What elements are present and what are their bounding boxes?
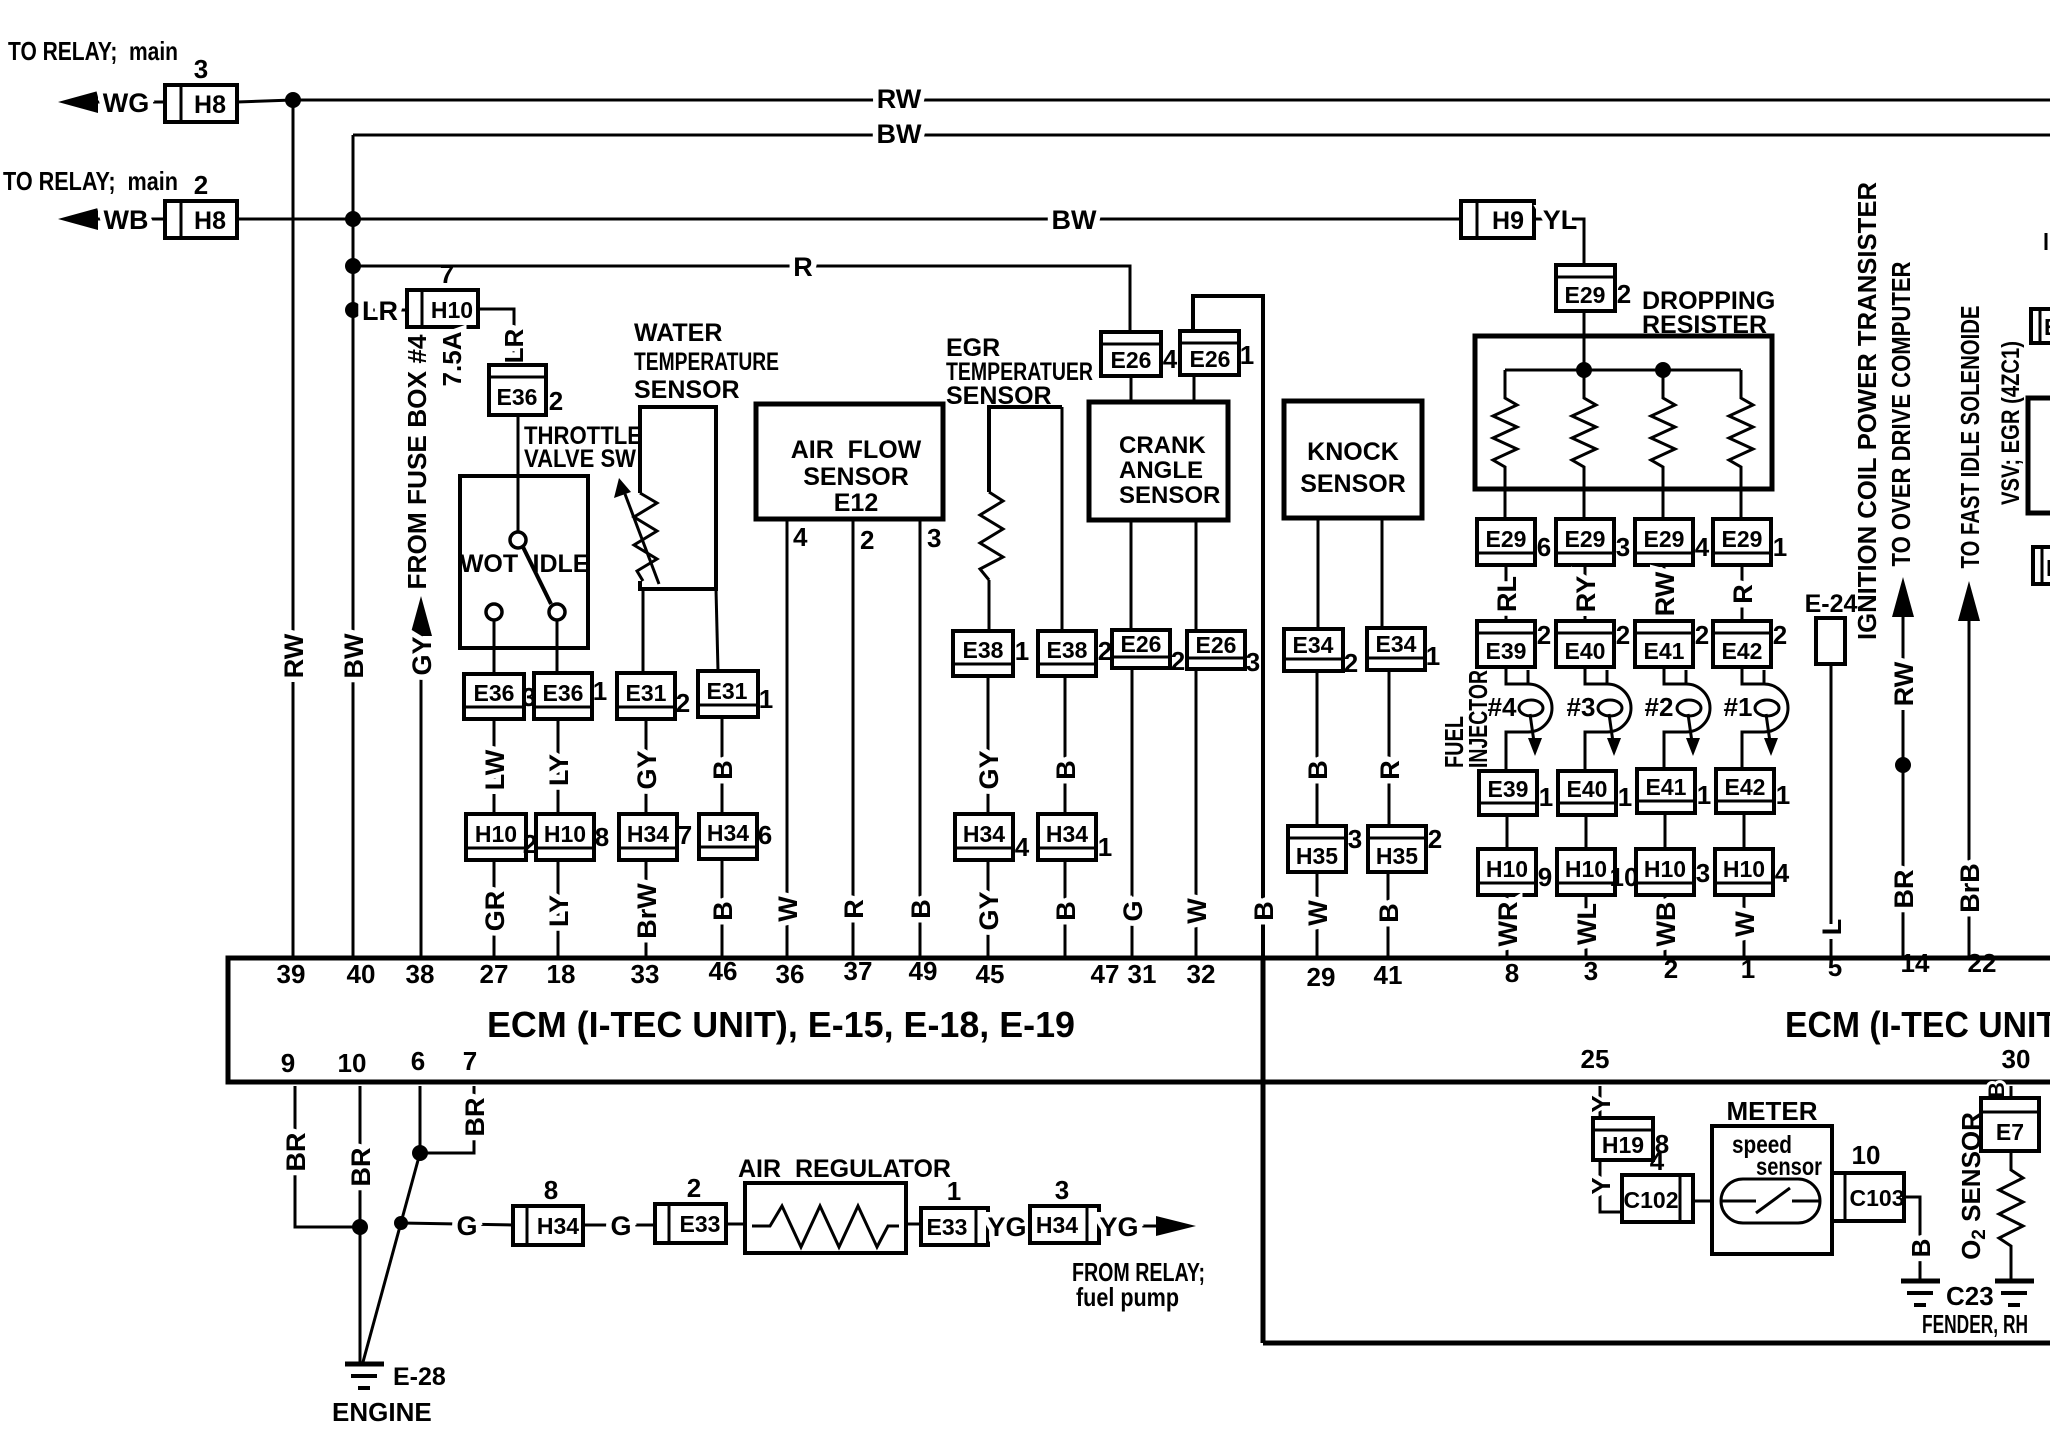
- connector E26 pin 1: [1180, 331, 1254, 375]
- connector E29 pin 3: [1556, 519, 1630, 565]
- svg-text:E12: E12: [834, 489, 878, 517]
- svg-text:WOT: WOT: [460, 550, 518, 578]
- connector H34 pin 6: [699, 814, 772, 859]
- svg-text:R: R: [839, 899, 869, 919]
- svg-text:VALVE SW: VALVE SW: [524, 445, 636, 473]
- svg-text:38: 38: [406, 959, 435, 989]
- air regulator: [738, 1155, 951, 1253]
- svg-text:27: 27: [480, 959, 509, 989]
- connector E39 pin 1: [1479, 771, 1553, 815]
- svg-text:#1: #1: [1724, 692, 1753, 722]
- svg-text:GR: GR: [480, 891, 510, 932]
- svg-text:WB: WB: [1651, 902, 1681, 947]
- svg-text:3: 3: [927, 523, 941, 553]
- connector H35 pin 2: [1368, 824, 1442, 872]
- ECM (I-TEC UNIT) left box E-15 E-18 E-19: [228, 958, 2050, 1082]
- svg-text:#2: #2: [1645, 692, 1674, 722]
- svg-text:H10: H10: [1644, 856, 1686, 882]
- svg-text:7.5A: 7.5A: [437, 331, 467, 386]
- svg-text:3: 3: [194, 54, 208, 84]
- air flow sensor box E12: [756, 404, 943, 519]
- svg-text:WR: WR: [1493, 902, 1523, 947]
- wire GY to pin 45: [974, 860, 1004, 958]
- svg-text:47: 47: [1091, 959, 1120, 989]
- svg-text:2: 2: [549, 386, 563, 416]
- resistor R3: [1651, 370, 1675, 519]
- svg-text:4: 4: [793, 522, 808, 552]
- svg-text:BR: BR: [1889, 870, 1919, 909]
- svg-text:E-24: E-24: [1805, 590, 1858, 618]
- svg-text:KNOCK: KNOCK: [1307, 438, 1399, 466]
- svg-text:FENDER, RH: FENDER, RH: [1922, 1309, 2028, 1339]
- svg-text:W: W: [1182, 898, 1212, 924]
- svg-text:1: 1: [1741, 954, 1755, 984]
- wire L to pin 5: [1817, 664, 1847, 958]
- svg-text:E36: E36: [497, 384, 538, 410]
- wire GR to pin 27: [480, 860, 510, 958]
- svg-text:3: 3: [1348, 824, 1362, 854]
- svg-text:H19: H19: [1602, 1132, 1644, 1158]
- svg-text:METER: METER: [1727, 1096, 1818, 1126]
- wire B to pin 46: [708, 859, 738, 958]
- label DROPPING RESISTER: [1642, 287, 1775, 339]
- svg-text:3: 3: [1584, 956, 1598, 986]
- internal bus: [1505, 369, 1741, 372]
- connector E40 pin 1: [1558, 771, 1632, 815]
- transistor E-24: [1805, 590, 1858, 664]
- connector E29 pin 1: [1713, 519, 1787, 565]
- node junction RW at H8: [285, 92, 301, 108]
- wire BR pin 7: [420, 1086, 490, 1153]
- svg-text:2: 2: [1428, 824, 1442, 854]
- svg-text:2: 2: [1616, 620, 1630, 650]
- svg-text:E26: E26: [1196, 632, 1237, 658]
- svg-text:B: B: [1984, 1082, 2009, 1098]
- svg-text:C103: C103: [1850, 1185, 1905, 1211]
- arrow from fuse box GY: [407, 596, 437, 958]
- wire knock to E34-1: [1381, 518, 1384, 628]
- svg-text:E26: E26: [1121, 631, 1162, 657]
- svg-text:40: 40: [347, 959, 376, 989]
- EGR temperature sensor (thermistor): [980, 407, 1062, 580]
- svg-text:SENSOR: SENSOR: [634, 376, 740, 404]
- svg-text:H8: H8: [194, 91, 226, 119]
- connector C102 pin 4: [1622, 1146, 1693, 1222]
- wire to E38-1: [988, 580, 991, 631]
- svg-text:E36: E36: [474, 680, 515, 706]
- svg-text:Y: Y: [1586, 1177, 1616, 1194]
- wire E39-1 to H10-9: [1506, 815, 1509, 849]
- svg-text:IGNITION COIL POWER TRANSISTER: IGNITION COIL POWER TRANSISTER: [1852, 182, 1882, 640]
- wire Y pin 25 to H19: [1586, 1086, 1616, 1118]
- wire Y to C102: [1586, 1160, 1622, 1212]
- connector E41 pin 2: [1635, 620, 1709, 667]
- resistor R4: [1729, 370, 1753, 519]
- wire WR to pin 8: [1493, 895, 1523, 958]
- wire W to pin 1: [1730, 895, 1760, 958]
- wire E26-4 to crank box: [1130, 376, 1133, 402]
- connector H34 pin 1: [1038, 814, 1112, 862]
- svg-text:H10: H10: [1565, 856, 1607, 882]
- connector E36 pin 1: [534, 673, 607, 719]
- wire YG to H34-3: [987, 1212, 1030, 1242]
- svg-text:8: 8: [544, 1175, 558, 1205]
- wire LR to fuse: [353, 296, 407, 326]
- svg-text:8: 8: [1505, 958, 1519, 988]
- svg-text:AIR REGULATOR: AIR REGULATOR: [738, 1155, 951, 1183]
- label WATER TEMPERATURE SENSOR: [634, 319, 779, 404]
- wire C102 to meter: [1693, 1200, 1721, 1203]
- svg-text:LR: LR: [499, 328, 529, 363]
- fuel injector 4: [1488, 667, 1552, 771]
- connector H10 pin 3: [1636, 849, 1710, 895]
- svg-text:E40: E40: [1567, 776, 1608, 802]
- svg-text:R: R: [1375, 760, 1405, 780]
- svg-text:E: E: [2044, 314, 2050, 340]
- wire EGR right leg to E38-2: [1061, 407, 1064, 631]
- svg-text:W: W: [773, 896, 803, 922]
- wire LY: [544, 719, 574, 814]
- svg-text:2: 2: [687, 1173, 701, 1203]
- svg-text:H34: H34: [627, 821, 669, 847]
- connector H8 pin 2: [165, 170, 237, 238]
- svg-text:1: 1: [1240, 340, 1254, 370]
- connector E26 pin 4: [1101, 332, 1178, 376]
- svg-text:H10: H10: [1723, 856, 1765, 882]
- svg-text:B: B: [1303, 760, 1333, 780]
- wire RW: [1650, 565, 1680, 621]
- svg-text:1: 1: [1773, 532, 1787, 562]
- connector E41 pin 1: [1637, 769, 1711, 813]
- svg-text:25: 25: [1581, 1044, 1610, 1074]
- ECM bottom pin numbers left: [281, 1046, 477, 1078]
- svg-text:E42: E42: [1725, 774, 1766, 800]
- svg-text:1: 1: [593, 676, 607, 706]
- node junction pin6/7: [412, 1145, 428, 1161]
- svg-text:H34: H34: [707, 820, 749, 846]
- svg-text:E31: E31: [626, 680, 667, 706]
- svg-text:BR: BR: [281, 1133, 311, 1172]
- svg-text:BrB: BrB: [1955, 863, 1985, 913]
- svg-text:GY: GY: [974, 891, 1004, 930]
- wire B: [708, 717, 738, 814]
- wire LY to pin 18: [544, 860, 574, 958]
- wire crank to E26-3: [1195, 520, 1198, 631]
- wire IDLE to E36-1: [556, 620, 559, 673]
- svg-text:E42: E42: [1722, 638, 1763, 664]
- svg-text:CRANK: CRANK: [1119, 432, 1206, 459]
- svg-text:E29: E29: [1565, 526, 1606, 552]
- svg-text:1: 1: [1776, 780, 1790, 810]
- wire BR pin 9: [281, 1086, 360, 1227]
- svg-text:B: B: [1051, 901, 1081, 921]
- svg-text:RW: RW: [1650, 571, 1680, 616]
- svg-text:14: 14: [1901, 948, 1930, 978]
- ECM bottom pin numbers right: [1581, 1044, 2031, 1074]
- svg-text:TO OVER DRIVE COMPUTER: TO OVER DRIVE COMPUTER: [1886, 261, 1916, 566]
- svg-text:E40: E40: [1565, 638, 1606, 664]
- svg-text:TEMPERATURE: TEMPERATURE: [634, 348, 779, 376]
- svg-text:4: 4: [1775, 858, 1790, 888]
- connector E26 pin 2: [1112, 630, 1185, 676]
- svg-text:7: 7: [678, 820, 692, 850]
- svg-text:3: 3: [1246, 647, 1260, 677]
- svg-text:H35: H35: [1296, 843, 1338, 869]
- connector H10 pin 10: [1557, 849, 1638, 895]
- connector H10 pin 8: [536, 814, 609, 860]
- svg-text:33: 33: [631, 959, 660, 989]
- dropping resister box: [1475, 336, 1772, 489]
- wire air regulator to E33-1: [906, 1223, 921, 1226]
- svg-text:ECM (I-TEC UNIT), E-15, E-18,: ECM (I-TEC UNIT), E-15, E-18, E-19: [487, 1004, 1075, 1045]
- knock sensor box: [1284, 401, 1422, 518]
- wire to E31-1: [716, 589, 718, 671]
- connector E31 pin 2: [617, 673, 690, 719]
- svg-text:H10: H10: [475, 821, 517, 847]
- arrow to relay WB: [58, 205, 165, 235]
- svg-text:6: 6: [758, 820, 772, 850]
- node junction BR: [352, 1219, 368, 1235]
- svg-text:LW: LW: [480, 749, 510, 790]
- svg-text:41: 41: [1374, 960, 1403, 990]
- wire stub right edge: [2045, 233, 2048, 250]
- svg-text:3: 3: [1616, 532, 1630, 562]
- wire WB/BW to H9: [237, 205, 1461, 235]
- connector E38 pin 1: [953, 631, 1029, 676]
- svg-text:2: 2: [1664, 954, 1678, 984]
- wire B to ground C23: [1904, 1197, 1936, 1279]
- wire R: [1375, 670, 1405, 826]
- svg-text:E39: E39: [1486, 638, 1527, 664]
- wire RW top bus: [293, 84, 2050, 114]
- svg-text:SENSOR: SENSOR: [1300, 470, 1406, 498]
- svg-text:49: 49: [909, 956, 938, 986]
- wire W to pin 29: [1303, 872, 1333, 958]
- wire E26-1 bracket to B line: [1193, 296, 1263, 958]
- svg-text:2: 2: [1344, 648, 1358, 678]
- connector H35 pin 3: [1288, 824, 1362, 872]
- svg-text:E33: E33: [680, 1211, 721, 1237]
- svg-text:G: G: [1118, 900, 1148, 921]
- wire YL to E29-2: [1534, 205, 1584, 265]
- svg-text:IDLE: IDLE: [533, 550, 590, 578]
- svg-text:W: W: [1730, 911, 1760, 937]
- water temperature sensor (thermistor): [614, 407, 716, 589]
- svg-text:FROM FUSE BOX #4: FROM FUSE BOX #4: [402, 334, 432, 590]
- svg-text:B: B: [1249, 901, 1279, 921]
- svg-text:30: 30: [2002, 1044, 2031, 1074]
- wire E33-2 to air regulator: [726, 1223, 758, 1226]
- svg-text:RW: RW: [1889, 661, 1919, 706]
- svg-text:H34: H34: [537, 1213, 579, 1239]
- ECM top pin numbers: [277, 948, 1997, 992]
- svg-text:H34: H34: [1046, 821, 1088, 847]
- svg-text:3: 3: [1055, 1175, 1069, 1205]
- svg-text:SENSOR: SENSOR: [1119, 482, 1220, 509]
- svg-text:18: 18: [547, 959, 576, 989]
- connector H10 pin 2: [466, 814, 537, 860]
- svg-text:BR: BR: [460, 1098, 490, 1137]
- wire WL to pin 3: [1572, 895, 1602, 958]
- svg-text:E41: E41: [1646, 774, 1687, 800]
- crank angle sensor box: [1089, 402, 1228, 520]
- wire BrW to pin 33: [632, 860, 662, 958]
- connector H9: [1461, 201, 1534, 238]
- wire B to pin 41: [1374, 872, 1404, 958]
- svg-text:E26: E26: [1111, 347, 1152, 373]
- wire R: [1728, 565, 1758, 621]
- svg-text:4: 4: [1650, 1146, 1665, 1176]
- label THROTTLE VALVE SW: [524, 422, 642, 473]
- svg-text:LR: LR: [362, 296, 398, 326]
- svg-text:H9: H9: [1492, 207, 1524, 235]
- connector E40 pin 2: [1556, 620, 1630, 667]
- node junction LR branch: [345, 302, 361, 318]
- resistor R2: [1572, 370, 1596, 519]
- svg-text:ENGINE: ENGINE: [332, 1397, 432, 1427]
- svg-text:GY: GY: [632, 750, 662, 789]
- wire WB to pin 2: [1651, 895, 1681, 958]
- wire BW top bus: [353, 119, 2050, 149]
- svg-text:E41: E41: [1644, 638, 1685, 664]
- svg-text:E29: E29: [1644, 526, 1685, 552]
- svg-text:TO FAST IDLE SOLENOIDE: TO FAST IDLE SOLENOIDE: [1955, 306, 1985, 569]
- svg-text:7: 7: [440, 259, 454, 289]
- svg-text:1: 1: [947, 1176, 961, 1206]
- svg-text:E7: E7: [1996, 1119, 2024, 1145]
- svg-text:BW: BW: [877, 119, 922, 149]
- ground C23 FENDER RH: [1901, 1281, 2028, 1339]
- svg-text:22: 22: [1968, 948, 1997, 978]
- connector E42 pin 1: [1716, 769, 1790, 813]
- fuel injector 2: [1645, 667, 1710, 771]
- node dot bus left: [1576, 362, 1592, 378]
- svg-text:GY: GY: [974, 750, 1004, 789]
- svg-text:G: G: [456, 1211, 477, 1241]
- svg-text:1: 1: [1098, 832, 1112, 862]
- svg-text:G: G: [610, 1211, 631, 1241]
- svg-text:H35: H35: [1376, 843, 1418, 869]
- svg-text:H34: H34: [963, 821, 1005, 847]
- svg-text:B: B: [906, 899, 936, 919]
- svg-text:E34: E34: [1376, 631, 1417, 657]
- connector E34 pin 1: [1367, 628, 1440, 671]
- svg-text:R: R: [1728, 584, 1758, 604]
- connector E7: [1981, 1098, 2039, 1151]
- svg-text:C23: C23: [1946, 1281, 1994, 1311]
- svg-text:2: 2: [1537, 620, 1551, 650]
- O2 sensor resistor: [1999, 1151, 2023, 1279]
- svg-text:10: 10: [1852, 1140, 1881, 1170]
- connector H34 pin 8: [513, 1175, 583, 1245]
- partial VSV box right edge: [2028, 398, 2050, 513]
- svg-text:32: 32: [1187, 959, 1216, 989]
- wire B to pin 47: [1051, 860, 1081, 958]
- svg-text:RL: RL: [1492, 576, 1522, 612]
- svg-text:E34: E34: [1293, 632, 1334, 658]
- wire E29-2 inside dropping box: [1583, 336, 1586, 370]
- svg-text:YG: YG: [987, 1212, 1026, 1242]
- svg-text:ECM (I-TEC UNIT: ECM (I-TEC UNIT: [1785, 1004, 2050, 1045]
- connector H8 pin 3: [165, 54, 237, 122]
- wire R branch: [353, 252, 1130, 332]
- wire H8-3 to RW node: [237, 100, 293, 102]
- svg-text:WG: WG: [103, 88, 150, 118]
- connector E29 pin 6: [1477, 519, 1551, 565]
- svg-text:BW: BW: [339, 633, 369, 678]
- node dot bus right: [1655, 362, 1671, 378]
- svg-text:2: 2: [676, 688, 690, 718]
- connector E26 pin 3: [1187, 631, 1260, 677]
- connector H34 pin 4: [955, 814, 1030, 862]
- throttle valve switch box: [460, 415, 590, 648]
- svg-text:H34: H34: [1036, 1212, 1078, 1238]
- wire E42-1 to H10-4: [1743, 813, 1746, 849]
- svg-text:9: 9: [281, 1048, 295, 1078]
- svg-text:TO RELAY; main: TO RELAY; main: [3, 166, 178, 196]
- svg-text:E-28: E-28: [393, 1363, 446, 1391]
- label EGR TEMPERATUER SENSOR: [946, 334, 1093, 410]
- wire GY: [632, 719, 662, 814]
- svg-text:YL: YL: [1543, 205, 1578, 235]
- svg-text:2: 2: [1695, 620, 1709, 650]
- connector E29 pin 4: [1635, 519, 1710, 565]
- svg-text:2: 2: [194, 170, 208, 200]
- svg-text:B: B: [1374, 903, 1404, 923]
- connector H10 pin 4: [1715, 849, 1790, 895]
- svg-text:LY: LY: [544, 754, 574, 786]
- wire LR fuse to E36-2: [478, 309, 529, 365]
- svg-text:E31: E31: [707, 678, 748, 704]
- svg-text:sensor: sensor: [1756, 1153, 1822, 1181]
- wire LW: [480, 719, 510, 814]
- svg-text:2: 2: [1773, 620, 1787, 650]
- fuel injector 1: [1724, 667, 1788, 771]
- wire B: [1303, 671, 1333, 826]
- svg-text:BrW: BrW: [632, 883, 662, 939]
- arrow TO FAST IDLE SOLENOIDE: [1955, 306, 1985, 959]
- svg-text:BW: BW: [1052, 205, 1097, 235]
- svg-text:6: 6: [1537, 532, 1551, 562]
- svg-text:RW: RW: [877, 84, 922, 114]
- svg-text:YG: YG: [1099, 1212, 1138, 1242]
- svg-text:7: 7: [463, 1046, 477, 1076]
- wire RW vertical to pin 39: [279, 100, 309, 958]
- connector C103 pin 10: [1832, 1140, 1904, 1221]
- connector E29 pin 2: [1556, 265, 1631, 311]
- svg-text:46: 46: [709, 956, 738, 986]
- connector E36 pin 3: [464, 674, 536, 719]
- wire knock to E34-2: [1317, 518, 1320, 629]
- svg-text:2: 2: [860, 525, 874, 555]
- svg-text:E36: E36: [543, 680, 584, 706]
- resistor R1: [1493, 370, 1517, 519]
- wire crank to E26-2: [1130, 520, 1133, 630]
- svg-text:H8: H8: [194, 207, 226, 235]
- wire W to pin 32: [1182, 669, 1212, 958]
- air flow pin 3 wire B to pin 49: [906, 519, 941, 958]
- wire BR pin 10 to engine ground: [346, 1086, 376, 1362]
- fuel injector 3: [1567, 667, 1631, 771]
- wire E26-1 to crank box: [1193, 375, 1196, 402]
- svg-text:E29: E29: [1722, 526, 1763, 552]
- svg-text:1: 1: [1015, 636, 1029, 666]
- wire G to H34-8: [401, 1211, 513, 1241]
- wire GY: [974, 676, 1004, 814]
- svg-text:LY: LY: [544, 895, 574, 927]
- label FROM RELAY fuel pump: [1072, 1257, 1205, 1312]
- svg-text:H10: H10: [1486, 856, 1528, 882]
